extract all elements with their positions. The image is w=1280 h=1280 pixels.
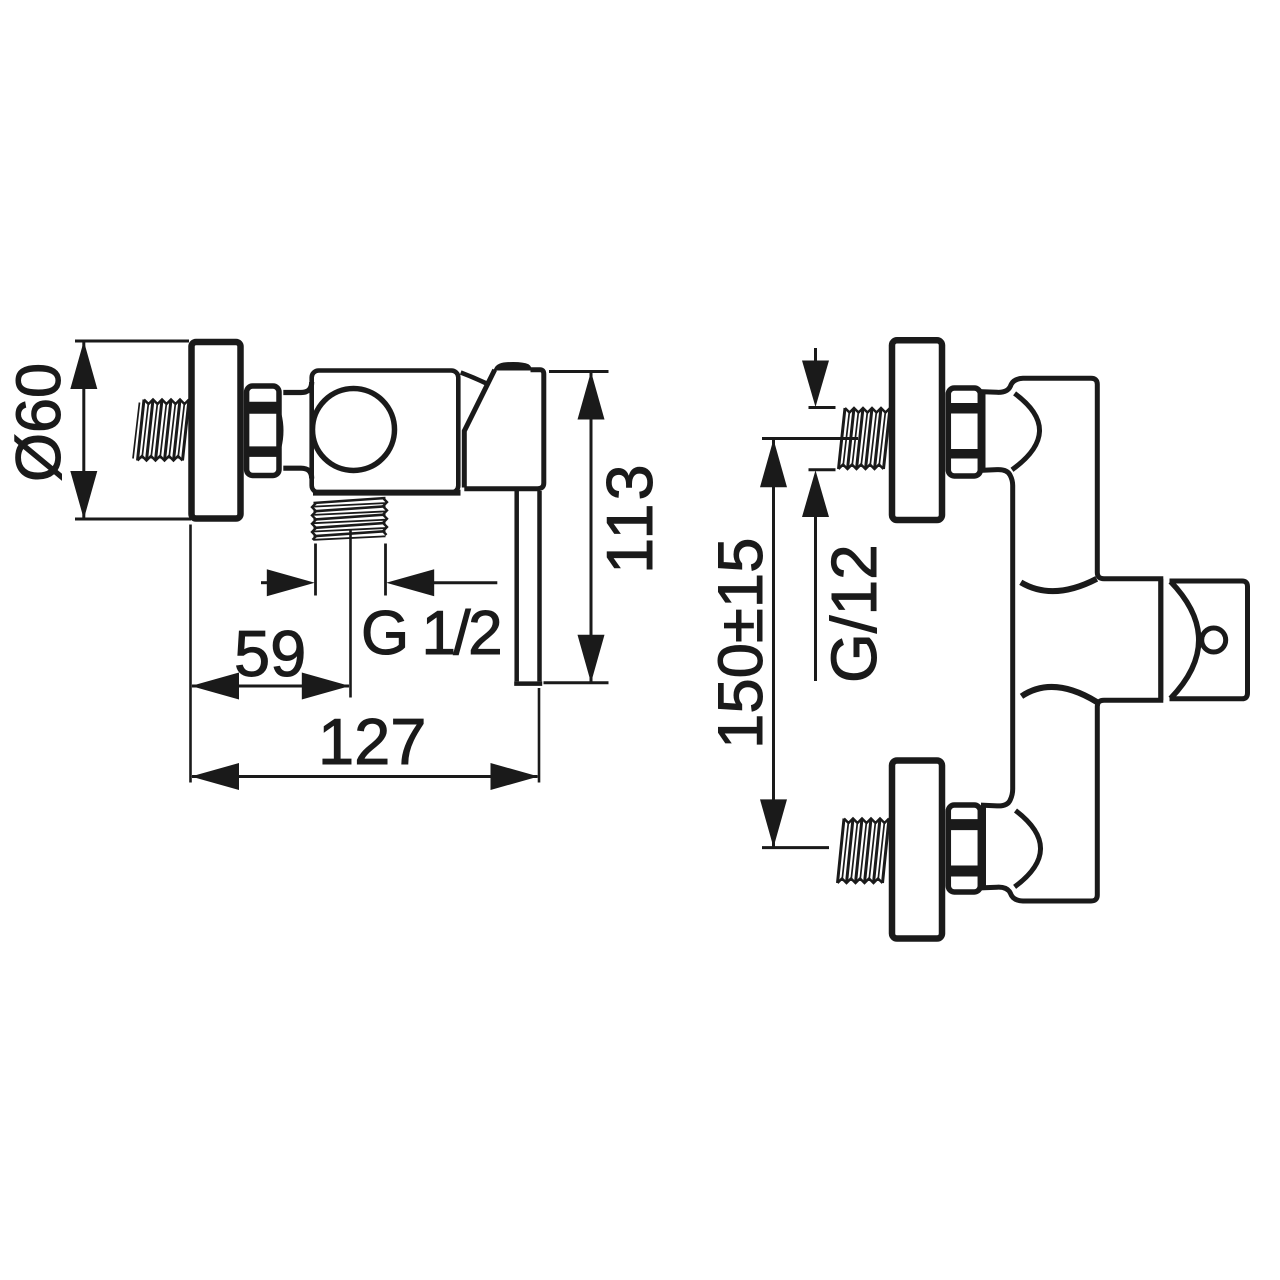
top eccentric ball arc — [1012, 393, 1040, 469]
handle body (front view rectangle) — [1170, 581, 1248, 699]
cartridge cover curve (between body and handle stem) — [461, 373, 487, 384]
dimension 113 arrows — [578, 372, 605, 420]
dimension 150±15 line — [772, 440, 775, 847]
dimension Ø60 extension lines — [75, 341, 191, 519]
handle cap arc — [1171, 582, 1199, 699]
bottom eccentric ball arc — [1015, 811, 1041, 887]
dimension Ø60 arrows — [70, 341, 97, 389]
neck ring between nut and body — [283, 382, 311, 393]
handle cap dome (filled) — [494, 362, 532, 371]
svg-text:150±15: 150±15 — [706, 538, 776, 749]
dimension Ø60 line — [82, 341, 85, 519]
wall flange (round escutcheon, side profile) — [192, 342, 241, 519]
outlet centre line — [349, 530, 352, 698]
svg-text:Ø60: Ø60 — [4, 363, 74, 482]
svg-text:113: 113 — [593, 461, 666, 574]
top hex nut (front view) — [948, 388, 980, 476]
handle base outline (top and right edges) — [464, 370, 544, 489]
dimension 59 line — [192, 685, 349, 688]
handle screw hole — [1202, 628, 1226, 652]
wall thread (left inlet pipe thread, sawtooth hatch) — [138, 400, 190, 461]
handle joint line — [1158, 579, 1163, 701]
svg-text:G 1/2: G 1/2 — [361, 599, 500, 668]
dimension 127 line — [192, 775, 538, 778]
cartridge circle on body — [313, 389, 395, 471]
mixer body silhouette (front view, closed white shape) — [983, 378, 1161, 901]
bottom hex nut (front view) — [948, 805, 980, 892]
dimension G 1/2 line with outside arrows — [261, 581, 268, 584]
body of mixer (side silhouette) — [312, 371, 459, 493]
dimension 113 extension lines — [544, 372, 609, 683]
svg-text:59: 59 — [234, 617, 306, 690]
dimension 113 line — [590, 372, 593, 683]
upper waist curve — [1021, 579, 1097, 591]
top inlet thread (sawtooth hatch) — [839, 408, 891, 469]
svg-text:127: 127 — [318, 705, 426, 778]
lower waist curve — [1022, 687, 1097, 702]
thread tick lines — [809, 406, 836, 409]
dimension 150±15 arrows — [760, 439, 787, 487]
connection hex nut (side profile with facet bands) — [247, 386, 279, 476]
top wall flange (front view) — [892, 340, 942, 520]
body bottom edge (thicker) — [313, 490, 461, 496]
bottom wall flange (front view) — [892, 761, 942, 939]
svg-text:G/12: G/12 — [818, 544, 890, 683]
handle stem slant and cap base (left profile) — [464, 370, 494, 488]
small top dimension line (thread depth, down arrow) — [814, 348, 817, 363]
handle lever (hanging down) — [514, 491, 519, 681]
right extension line (lever edge, for 127) — [538, 688, 541, 783]
dimension G 1/2 extension lines — [316, 544, 386, 596]
bottom inlet thread (sawtooth hatch) — [838, 819, 890, 884]
dimension G/12 line (up arrow) — [802, 470, 829, 517]
left extension line (flange edge, for 59 and 127) — [189, 525, 192, 783]
outlet thread G 1/2 (bottom outlet, sawtooth rows) — [314, 498, 386, 536]
dimension 150±15 extension lines — [762, 439, 858, 848]
